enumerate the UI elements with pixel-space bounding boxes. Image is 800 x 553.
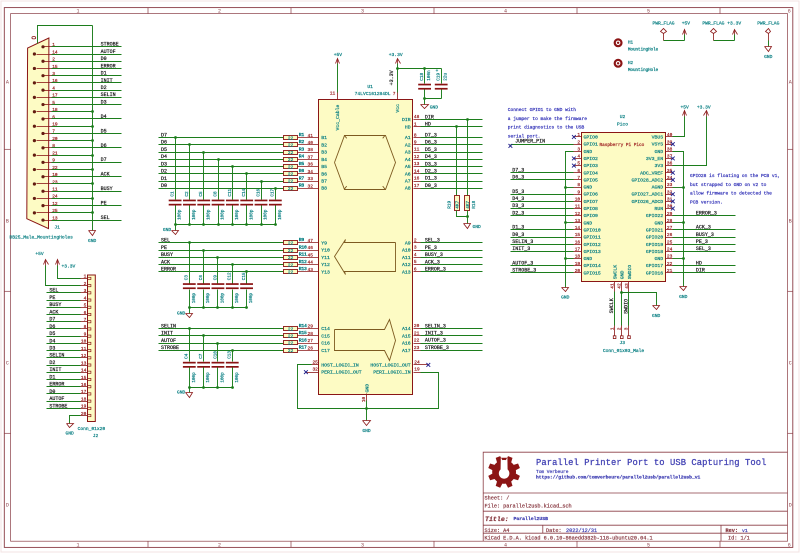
svg-text:GPIO16: GPIO16	[646, 270, 663, 276]
junction	[188, 223, 191, 226]
U2 pin 6 GPIO4	[574, 172, 582, 174]
svg-text:RUN: RUN	[655, 206, 664, 212]
svg-text:41: 41	[609, 283, 615, 289]
wire D1	[52, 75, 122, 77]
module U2 Raspberry Pi Pico body	[582, 133, 666, 282]
svg-text:39: 39	[667, 139, 673, 145]
wire D2	[159, 173, 284, 175]
svg-text:C1: C1	[171, 191, 176, 197]
J2 pin 13	[81, 365, 88, 367]
wire +5V to J2 pin 2	[46, 266, 81, 286]
wire SEL_3	[673, 251, 736, 253]
power flag PWR_FLAG (+5V)	[663, 34, 665, 41]
wire to GND rail	[52, 212, 93, 214]
junction	[274, 223, 277, 226]
junction	[91, 197, 94, 200]
no-connect x (U2 pin 1)	[572, 135, 576, 139]
junction	[231, 223, 234, 226]
wire D1_3	[421, 181, 483, 183]
U2 pin 20 GPIO15	[574, 272, 582, 274]
junction	[202, 386, 205, 389]
wire AGND to rail	[673, 187, 684, 189]
J1 pin 8	[41, 146, 44, 149]
svg-text:20: 20	[414, 323, 420, 329]
U1 pin 33	[298, 181, 319, 183]
no-connect x (U2 pin 37)	[671, 157, 675, 161]
J2 pin 15	[81, 379, 88, 381]
wire D3	[47, 350, 81, 352]
no-connect x (U2 pin 30)	[671, 207, 675, 211]
svg-text:D4: D4	[161, 154, 167, 160]
capacitor C9 100p	[217, 258, 219, 284]
svg-text:B: B	[6, 218, 9, 224]
svg-text:31: 31	[667, 196, 673, 202]
svg-text:+3.3V: +3.3V	[389, 52, 403, 58]
wire U2 pin 23 GND	[673, 258, 684, 260]
J1 pin 2	[41, 60, 44, 63]
svg-text:VSYS: VSYS	[652, 142, 664, 148]
svg-text:C17: C17	[271, 188, 276, 196]
U1 pin 45	[298, 257, 319, 259]
resistor R13 22	[284, 270, 298, 274]
svg-text:3: 3	[52, 71, 55, 77]
U1 pin 20 A14	[414, 328, 421, 330]
wire to GND rail	[52, 198, 93, 200]
U1 pin 24 HOST_LOGIC_OUT	[414, 364, 428, 366]
svg-text:42: 42	[617, 283, 623, 289]
wire D0	[52, 61, 122, 63]
svg-text:ACK: ACK	[49, 309, 58, 315]
J3 pin 3	[628, 326, 630, 336]
wire D3_3	[511, 208, 574, 210]
svg-text:100p: 100p	[278, 209, 283, 220]
svg-text:SEL_3: SEL_3	[425, 238, 440, 244]
svg-text:22: 22	[288, 135, 294, 141]
wire D3	[52, 104, 122, 106]
svg-text:GND: GND	[177, 390, 186, 396]
svg-text:C14: C14	[242, 188, 247, 196]
svg-text:D1_3: D1_3	[425, 176, 437, 182]
svg-text:12: 12	[52, 201, 58, 207]
svg-text:A: A	[789, 80, 792, 86]
J2 pin 6	[81, 314, 88, 316]
svg-text:Y10: Y10	[321, 248, 330, 254]
svg-text:C10: C10	[213, 351, 218, 359]
svg-text:GPIO17: GPIO17	[646, 263, 663, 269]
power symbol GND (filter)	[189, 308, 191, 314]
svg-text:12: 12	[414, 154, 420, 160]
svg-text:+3.3V: +3.3V	[62, 263, 76, 269]
wire J1 GND rail	[92, 26, 94, 231]
svg-text:D5: D5	[161, 147, 167, 153]
svg-text:A: A	[6, 80, 9, 86]
svg-text:5: 5	[647, 542, 650, 548]
svg-text:STROBE: STROBE	[161, 345, 179, 351]
junction	[174, 136, 177, 139]
U2 pin 13 GND	[574, 222, 582, 224]
svg-text:HD: HD	[696, 260, 702, 266]
power flag PWR_FLAG (+3.3V)	[713, 34, 715, 41]
wire +3.3V to C18 C19	[398, 68, 442, 70]
svg-text:STROBE_3: STROBE_3	[512, 268, 536, 274]
power symbol +5V (U1)	[336, 59, 340, 64]
svg-text:Date:: Date:	[546, 528, 562, 534]
junction	[245, 306, 248, 309]
U2 pin 23 GND	[666, 258, 673, 260]
svg-text:R17: R17	[299, 346, 307, 351]
U1 pin 4 A11	[414, 257, 421, 259]
junction	[423, 67, 426, 70]
resistor R5 22	[284, 165, 298, 169]
wire D5_3	[511, 194, 574, 196]
capacitor C15 100p	[246, 272, 248, 284]
svg-text:100p: 100p	[206, 292, 211, 303]
mounting hole H1	[615, 39, 622, 46]
svg-text:21: 21	[667, 268, 673, 274]
svg-text:100p: 100p	[206, 372, 211, 383]
U1 pin 23 A17	[414, 350, 421, 352]
junction	[231, 165, 234, 168]
U2 pin 34 GPIO28_ADC2	[666, 179, 673, 181]
svg-text:9: 9	[577, 189, 580, 195]
J1 shield marker	[32, 37, 36, 39]
svg-text:C13: C13	[228, 351, 233, 359]
svg-text:D3: D3	[49, 346, 55, 352]
wire D7	[159, 137, 284, 139]
capacitor C13 100p	[232, 351, 234, 362]
J1 pin 20	[33, 139, 36, 142]
svg-text:A6: A6	[405, 171, 411, 177]
svg-text:SWCLK: SWCLK	[609, 298, 615, 313]
svg-text:10: 10	[575, 196, 581, 202]
capacitor C11 100p	[232, 167, 234, 200]
svg-text:23: 23	[667, 254, 673, 260]
svg-text:D0: D0	[161, 183, 167, 189]
U2 pin 36 3V3	[666, 165, 673, 167]
svg-text:GPIO9: GPIO9	[584, 213, 599, 219]
svg-text:GPIO6: GPIO6	[584, 192, 599, 198]
svg-text:D7_3: D7_3	[425, 132, 437, 138]
svg-text:GND: GND	[88, 238, 97, 244]
svg-text:22: 22	[288, 255, 294, 261]
junction	[91, 182, 94, 185]
svg-text:HOST_LOGIC_IN: HOST_LOGIC_IN	[321, 362, 359, 368]
wire D6_3	[421, 144, 483, 146]
junction	[423, 97, 426, 100]
svg-text:D4_3: D4_3	[425, 154, 437, 160]
J1 pin 9	[41, 161, 44, 164]
svg-text:GPIO28 is floating on the PCB: GPIO28 is floating on the PCB v1,	[690, 173, 780, 179]
capacitor C5 100p	[203, 153, 205, 200]
U1 pin 32 PERI_LOGIC_OUT	[306, 372, 319, 374]
svg-text:GND: GND	[561, 295, 570, 301]
junction	[91, 139, 94, 142]
svg-text:36: 36	[667, 161, 673, 167]
svg-text:SELIN: SELIN	[161, 323, 176, 329]
svg-text:U1: U1	[367, 84, 373, 90]
svg-text:10: 10	[81, 339, 87, 345]
J1 pin 25	[33, 211, 36, 214]
svg-text:SWCLK: SWCLK	[612, 265, 618, 280]
wire BUSY	[52, 191, 122, 193]
svg-text:D4_3: D4_3	[512, 196, 524, 202]
svg-text:GPIO0: GPIO0	[584, 135, 599, 141]
svg-text:GPIO8: GPIO8	[584, 206, 599, 212]
wire D4	[159, 159, 284, 161]
svg-text:PE: PE	[101, 201, 107, 207]
svg-text:100p: 100p	[249, 209, 254, 220]
U1 pin 5 A12	[414, 264, 421, 266]
svg-text:ERROR_3: ERROR_3	[696, 210, 717, 216]
svg-text:22: 22	[288, 348, 294, 354]
wire AUTOF	[159, 343, 284, 345]
svg-text:14: 14	[575, 225, 581, 231]
svg-text:GPIO4: GPIO4	[584, 170, 599, 176]
svg-text:17: 17	[81, 389, 87, 395]
svg-text:DB25_Male_MountingHoles: DB25_Male_MountingHoles	[10, 235, 74, 241]
svg-text:GPIO1: GPIO1	[584, 142, 599, 148]
svg-text:AUTOF_3: AUTOF_3	[512, 260, 533, 266]
svg-text:R3: R3	[299, 147, 305, 152]
wire D6	[159, 144, 284, 146]
wire BUSY_3	[421, 257, 483, 259]
wire ERROR_3	[673, 215, 736, 217]
J2 pin 10	[81, 343, 88, 345]
J1 pin 15	[33, 67, 36, 70]
U2 pin 25 GPIO19	[666, 244, 673, 246]
svg-text:GND: GND	[430, 105, 439, 111]
wire D2_3	[511, 215, 574, 217]
J1 pin 12	[41, 204, 44, 207]
wire HD to R19	[456, 127, 458, 196]
resistor R16 22	[284, 341, 298, 345]
svg-text:GND: GND	[66, 431, 75, 437]
svg-text:A3: A3	[405, 150, 411, 156]
wire AUTOF_3	[421, 343, 483, 345]
svg-text:BUSY_3: BUSY_3	[696, 232, 714, 238]
svg-text:4: 4	[504, 9, 507, 15]
svg-text:6: 6	[52, 114, 55, 120]
wire BUSY_3	[673, 237, 736, 239]
power symbol GND (R18 R19)	[464, 224, 471, 229]
svg-text:100p: 100p	[178, 209, 183, 220]
U1 pin 19 PERI_LOGIC_IN	[414, 372, 421, 374]
svg-text:ACK: ACK	[101, 172, 110, 178]
svg-text:R19: R19	[447, 200, 452, 208]
svg-text:16: 16	[575, 239, 581, 245]
svg-text:15: 15	[575, 232, 581, 238]
junction	[620, 291, 623, 294]
power symbol GND (U2 left)	[562, 288, 569, 292]
U2 pin 30 RUN	[666, 208, 673, 210]
svg-text:34: 34	[308, 169, 314, 175]
svg-text:print diagnostics to the USB: print diagnostics to the USB	[508, 125, 585, 131]
svg-text:PE_3: PE_3	[425, 245, 437, 251]
svg-text:12: 12	[81, 353, 87, 359]
wire to GND rail	[52, 140, 93, 142]
wire STROBE	[159, 350, 284, 352]
svg-text:D3: D3	[161, 161, 167, 167]
svg-text:23: 23	[414, 345, 420, 351]
capacitor C17 100p	[275, 189, 277, 200]
svg-text:12: 12	[575, 211, 581, 217]
resistor R3 22	[284, 151, 298, 155]
U2 pin 9 GPIO6	[574, 194, 582, 196]
svg-text:GPIO19: GPIO19	[646, 242, 663, 248]
wire DIR to R18	[467, 120, 469, 196]
svg-text:5: 5	[414, 259, 417, 265]
no-connect x (U1 pin 32)	[304, 370, 308, 374]
J1 pin 23	[33, 182, 36, 185]
U1 pin 25 HOST_LOGIC_IN	[312, 364, 319, 366]
wire PE_3	[673, 244, 736, 246]
wire GND rail	[190, 387, 233, 389]
no-connect x (U2 pin 5)	[572, 164, 576, 168]
junction	[202, 334, 205, 337]
no-connect x (JUMPER_PIN)	[509, 144, 513, 148]
svg-text:+5V: +5V	[680, 105, 689, 111]
U2 pin 1 GPIO0	[574, 136, 582, 138]
U2 pin 18 GND	[574, 258, 582, 260]
svg-text:A1: A1	[405, 135, 411, 141]
capacitor C2 100p	[189, 145, 191, 200]
svg-text:+5V: +5V	[35, 251, 44, 257]
svg-text:21: 21	[414, 330, 420, 336]
svg-text:GND: GND	[362, 428, 371, 434]
junction	[216, 306, 219, 309]
svg-text:PWR_FLAG: PWR_FLAG	[652, 21, 674, 27]
resistor R11 22	[284, 256, 298, 260]
svg-text:16: 16	[414, 176, 420, 182]
junction	[202, 151, 205, 154]
svg-text:18: 18	[81, 396, 87, 402]
junction	[466, 118, 469, 121]
U1 pin 11 Vcc_Cable	[337, 93, 339, 100]
wire SEL	[159, 242, 284, 244]
svg-text:24: 24	[414, 360, 420, 366]
svg-text:26: 26	[667, 232, 673, 238]
wire SEL_3	[421, 242, 483, 244]
U1 pin 21 A15	[414, 335, 421, 337]
U1 pin 48 DIR	[414, 119, 473, 121]
U1 pin 36	[298, 166, 319, 168]
no-connect x (U2 pin 32)	[671, 192, 675, 196]
svg-text:+3.3V: +3.3V	[697, 105, 711, 111]
power symbol GND (flag)	[765, 47, 772, 52]
svg-text:2: 2	[577, 139, 580, 145]
svg-text:PCB version.: PCB version.	[690, 199, 723, 205]
svg-text:20: 20	[575, 268, 581, 274]
U1 pin 16 A7	[414, 181, 421, 183]
svg-text:GND: GND	[655, 149, 664, 155]
wire D1	[47, 379, 81, 381]
U1 pin 28	[298, 335, 319, 337]
junction	[231, 306, 234, 309]
resistor R14 22	[284, 327, 298, 331]
power symbol GND (U2 right)	[680, 287, 687, 291]
wire D5	[52, 133, 122, 135]
svg-text:20: 20	[81, 411, 87, 417]
U2 pin 16 GPIO12	[574, 244, 582, 246]
J1 pin 16	[33, 81, 36, 84]
U1 pin 40	[298, 144, 319, 146]
svg-text:14: 14	[414, 168, 420, 174]
power symbol GND (J1)	[89, 231, 96, 236]
wire HD	[421, 126, 483, 128]
svg-text:16: 16	[81, 382, 87, 388]
junction	[202, 223, 205, 226]
svg-text:D0_3: D0_3	[512, 232, 524, 238]
svg-text:GND: GND	[177, 310, 186, 316]
svg-text:AUTOF: AUTOF	[101, 49, 116, 55]
svg-text:PE: PE	[49, 295, 55, 301]
svg-text:6: 6	[414, 266, 417, 272]
wire PE_3	[421, 250, 483, 252]
svg-text:22: 22	[288, 334, 294, 340]
U2 pin 15 GPIO11	[574, 237, 582, 239]
junction	[396, 67, 399, 70]
svg-text:D2: D2	[49, 360, 55, 366]
wire BUSY	[47, 307, 81, 309]
svg-text:Size: A4: Size: A4	[485, 528, 510, 534]
junction	[91, 168, 94, 171]
svg-text:3: 3	[624, 327, 630, 330]
svg-text:6: 6	[84, 310, 87, 316]
J2 pin 18	[81, 401, 88, 403]
svg-text:GPIO21: GPIO21	[646, 227, 663, 233]
wire D6	[52, 147, 122, 149]
svg-text:A16: A16	[402, 341, 411, 347]
wire D2	[52, 90, 122, 92]
svg-text:27: 27	[667, 225, 673, 231]
svg-text:B1: B1	[321, 135, 327, 141]
svg-text:C14: C14	[321, 326, 330, 332]
wire ACK	[159, 264, 284, 266]
U1 pin 41	[298, 137, 319, 139]
junction	[188, 327, 191, 330]
svg-text:C18: C18	[420, 73, 425, 81]
svg-text:100p: 100p	[264, 209, 269, 220]
svg-text:GND: GND	[655, 220, 664, 226]
svg-text:B7: B7	[321, 179, 327, 185]
U1 pin 3 A10	[414, 250, 421, 252]
svg-text:AGND: AGND	[652, 185, 664, 191]
svg-text:43: 43	[624, 283, 630, 289]
power symbol +5V (U2)	[683, 111, 687, 116]
no-connect x (U2 pin 31)	[671, 199, 675, 203]
U2 pin 10 GPIO7	[574, 201, 582, 203]
svg-text:D3_3: D3_3	[512, 203, 524, 209]
svg-text:R4: R4	[299, 155, 305, 160]
IC U1 74LVC161284 body	[319, 100, 413, 395]
svg-text:D5: D5	[101, 128, 107, 134]
junction	[365, 407, 368, 410]
wire SEL	[47, 292, 81, 294]
svg-text:6: 6	[788, 542, 791, 548]
svg-text:25: 25	[667, 239, 673, 245]
svg-text:Id: 1/1: Id: 1/1	[728, 536, 750, 542]
svg-text:22: 22	[288, 262, 294, 268]
svg-text:4K7: 4K7	[456, 200, 461, 208]
svg-text:14: 14	[81, 368, 87, 374]
wire J2 pin 20 to GND	[70, 416, 81, 424]
svg-text:100p: 100p	[235, 372, 240, 383]
svg-text:+3.3V: +3.3V	[727, 21, 741, 27]
J2 pin 14	[81, 372, 88, 374]
svg-text:PE_3: PE_3	[696, 239, 708, 245]
junction	[231, 349, 234, 352]
svg-text:DIR: DIR	[402, 117, 411, 123]
